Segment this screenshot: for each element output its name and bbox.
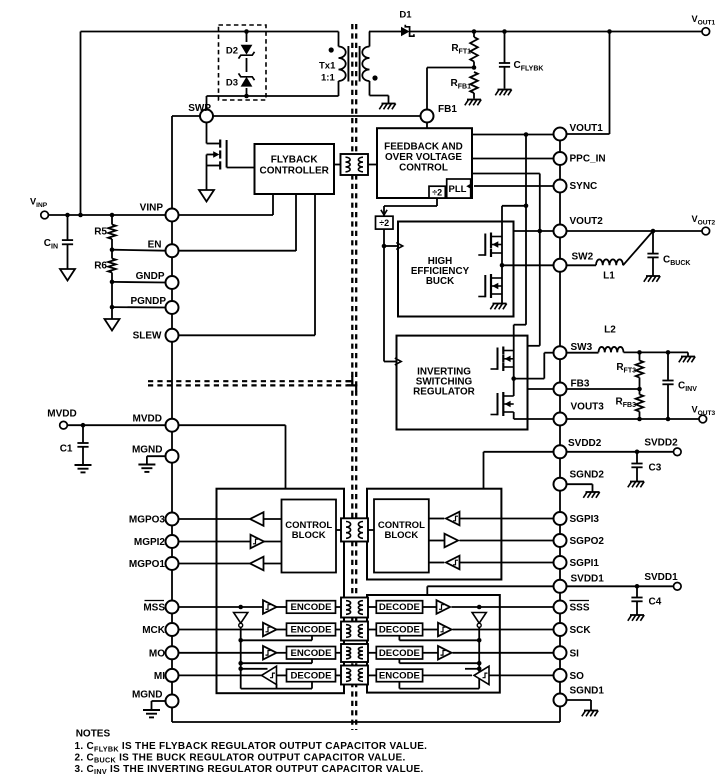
svg-text:ENCODE: ENCODE	[379, 671, 421, 682]
isolator flyback channel	[341, 154, 369, 175]
wire feedback to VOUT1 pin	[472, 132, 554, 137]
diode D1	[369, 10, 414, 37]
wire VOUT2 from buck	[514, 229, 554, 234]
pin SLEW	[133, 329, 179, 342]
wire buck FET feed	[502, 206, 526, 237]
feedback and over voltage control box	[377, 128, 472, 198]
resistor R5	[94, 215, 116, 250]
svg-text:EN: EN	[148, 240, 162, 251]
transistor buck low-side FET	[478, 274, 502, 298]
wire SVDD1 to SPI box	[427, 586, 553, 595]
buffer MGPI2	[251, 535, 265, 549]
svg-text:SGPO2: SGPO2	[570, 536, 605, 547]
buffer SSS	[437, 600, 451, 614]
resistor RFT1	[451, 32, 477, 68]
svg-text:SWP: SWP	[188, 103, 211, 114]
resistor R6	[94, 250, 116, 282]
svg-text:NOTES: NOTES	[76, 728, 111, 739]
wire buck half-bridge	[501, 237, 503, 304]
pin MSS	[143, 601, 178, 614]
wire FB1 feedback tap	[427, 68, 474, 110]
capacitor CFLYBK	[499, 32, 544, 89]
wire SLEW row	[179, 334, 316, 336]
ground C1	[75, 465, 92, 472]
buffer SO	[474, 666, 489, 684]
wire SGND1 ground	[567, 700, 592, 710]
pin SW3	[554, 342, 593, 359]
wire VOUT3 to terminal	[567, 417, 700, 422]
pin MVDD	[133, 414, 179, 432]
wire MVDD rail	[68, 423, 166, 428]
inductor L1	[567, 259, 624, 281]
ground secondary	[379, 104, 395, 110]
svg-text:DECODE: DECODE	[379, 625, 421, 636]
wire SW3 jog	[514, 353, 554, 379]
svg-text:MGPO3: MGPO3	[129, 515, 166, 526]
svg-text:D2: D2	[226, 46, 238, 57]
wire top rail primary	[81, 32, 339, 216]
svg-text:SLEW: SLEW	[133, 331, 162, 342]
svg-text:SCK: SCK	[570, 625, 592, 636]
svg-text:MCK: MCK	[142, 625, 166, 636]
decode box SI	[376, 647, 422, 660]
wire PGNDP row	[110, 282, 166, 319]
node snubber bottom	[244, 94, 249, 99]
svg-text:BUCK: BUCK	[426, 276, 454, 287]
wire SVDD2 to terminal	[567, 450, 674, 455]
svg-text:DECODE: DECODE	[379, 602, 421, 613]
buffer SCK	[438, 623, 452, 637]
pin VOUT2	[554, 216, 604, 238]
svg-text:VINP: VINP	[140, 203, 164, 214]
svg-text:SW2: SW2	[572, 252, 594, 263]
decode box SCK	[376, 623, 422, 636]
buffer SGPO2	[445, 534, 459, 548]
pin MGND upper	[132, 445, 179, 463]
svg-text:PGNDP: PGNDP	[130, 296, 166, 307]
ground RFB1	[465, 100, 481, 106]
ground CIN	[60, 269, 75, 281]
svg-text:CONTROL: CONTROL	[399, 163, 448, 174]
buffer MO	[263, 646, 277, 660]
isolator MI channel	[336, 666, 377, 685]
svg-text:DECODE: DECODE	[290, 671, 332, 682]
terminal VINP	[30, 197, 48, 219]
slave GPIO box	[367, 489, 501, 580]
resistor RFB3	[616, 389, 644, 419]
node RFT1/RFB1	[472, 65, 477, 70]
buffer SGPI1	[446, 556, 460, 570]
wire MI row	[179, 674, 287, 676]
slave SPI box	[367, 595, 500, 693]
pin SGPI3	[554, 512, 600, 525]
divider box /2 first	[429, 186, 445, 198]
pin MI	[154, 669, 179, 682]
transformer Tx1	[319, 32, 389, 104]
ground PGNDP	[105, 319, 120, 331]
wire VOUT1 to top rail	[567, 32, 610, 135]
encode box MO	[287, 647, 336, 660]
control block slave	[374, 499, 429, 572]
node R6 bottom	[110, 280, 115, 285]
capacitor CINV	[662, 352, 697, 419]
pin SCK	[554, 623, 592, 636]
wire chip bottom edge	[172, 721, 560, 723]
svg-text:MVDD: MVDD	[133, 414, 162, 425]
pin MGPO3	[129, 513, 179, 526]
inverting switching regulator box	[397, 336, 528, 430]
wire flyback isolator to feedback box	[368, 164, 377, 166]
master digital box	[217, 489, 345, 694]
svg-text:L1: L1	[603, 271, 615, 282]
terminal VOUT3	[692, 405, 716, 423]
capacitor CBUCK	[647, 231, 690, 276]
pin SW2	[554, 252, 594, 272]
terminal MVDD	[47, 409, 76, 430]
wire MSS gate bus	[238, 627, 312, 688]
wire /2 to inverting enable	[384, 246, 401, 365]
high efficiency buck box	[398, 222, 514, 317]
wire SW2	[502, 264, 554, 266]
svg-text:÷2: ÷2	[379, 218, 389, 228]
terminal VOUT2	[692, 214, 716, 235]
encode box SO	[376, 669, 422, 682]
pin VINP	[140, 203, 179, 222]
pin MO	[149, 646, 179, 659]
wire controller to EN	[295, 194, 297, 251]
ground buck	[490, 304, 506, 310]
decode box SSS	[376, 601, 422, 614]
pin MCK	[142, 623, 178, 636]
svg-text:REGULATOR: REGULATOR	[413, 387, 475, 398]
svg-text:ENCODE: ENCODE	[290, 625, 332, 636]
svg-text:SW3: SW3	[571, 342, 593, 353]
pin SYNC	[554, 180, 598, 193]
wire VOUT2 to terminal	[567, 229, 703, 234]
wire feedback to PPC_IN	[472, 158, 554, 160]
svg-text:MI: MI	[154, 671, 165, 682]
svg-text:PPC_IN: PPC_IN	[570, 154, 606, 165]
wire controller to SLEW	[314, 194, 316, 335]
svg-text:VOUT3: VOUT3	[571, 402, 605, 413]
wire controller to VINP	[179, 194, 274, 215]
svg-text:D1: D1	[399, 10, 412, 21]
buffer MGPO1	[250, 557, 264, 571]
svg-text:1:1: 1:1	[321, 73, 335, 84]
decode box MI	[287, 669, 336, 682]
wire SSS row	[423, 605, 554, 610]
isolator MSS channel	[336, 598, 377, 618]
svg-text:DECODE: DECODE	[379, 648, 421, 659]
terminal VOUT1	[692, 14, 716, 35]
pin EN	[148, 240, 179, 258]
svg-text:SVDD1: SVDD1	[571, 574, 605, 585]
notes	[75, 728, 428, 776]
ground flyback FET	[199, 190, 214, 202]
snubber dashed box	[219, 25, 267, 100]
wire MGPO3 row	[179, 518, 282, 520]
pin FB3	[554, 379, 590, 396]
pin MGND lower	[132, 690, 179, 708]
svg-text:MGND: MGND	[132, 445, 163, 456]
svg-text:VOUT2: VOUT2	[570, 216, 604, 227]
node snubber top	[244, 29, 249, 34]
ground L2	[679, 357, 695, 363]
barrier elbow joints	[346, 376, 356, 392]
isolation barrier horizontal	[148, 381, 353, 385]
svg-text:CONTROLLER: CONTROLLER	[259, 166, 329, 177]
ground SGND1	[582, 711, 598, 717]
svg-text:MVDD: MVDD	[47, 409, 76, 420]
wire MO row	[179, 652, 287, 654]
svg-text:MSS: MSS	[143, 603, 165, 614]
node R5/R6	[110, 247, 115, 252]
wire inverting half-bridge	[513, 351, 515, 397]
pin SVDD2	[554, 438, 602, 458]
svg-text:FLYBACK: FLYBACK	[271, 155, 319, 166]
wire MGND lower ground	[152, 701, 166, 710]
svg-text:Tx1: Tx1	[319, 61, 336, 72]
svg-text:L2: L2	[604, 325, 616, 336]
svg-text:SSS: SSS	[570, 603, 590, 614]
wire SGPI1 row	[429, 562, 554, 564]
svg-text:OVER VOLTAGE: OVER VOLTAGE	[385, 152, 462, 163]
diode D2	[226, 42, 255, 59]
wire MGND upper ground	[147, 456, 166, 464]
flyback controller box	[255, 144, 335, 194]
wire MCK row	[179, 629, 287, 631]
svg-text:ENCODE: ENCODE	[290, 648, 332, 659]
wire chip right edge	[559, 134, 561, 722]
svg-text:C1: C1	[60, 444, 73, 455]
isolator MCK channel	[336, 622, 377, 641]
wire SCK row	[423, 629, 554, 631]
svg-text:FB1: FB1	[438, 104, 457, 115]
isolator MO channel	[336, 644, 377, 662]
pin SSS	[554, 601, 590, 614]
svg-text:SVDD1: SVDD1	[644, 572, 678, 583]
wire SSS gate bus	[399, 627, 481, 688]
svg-text:PLL: PLL	[449, 184, 467, 195]
buffer MSS	[263, 600, 277, 614]
capacitor C3	[631, 452, 661, 481]
wire FB3 to divider	[567, 387, 642, 392]
pin SO	[554, 669, 585, 682]
resistor RFB1	[451, 72, 478, 99]
wire transformer primary bottom to SWP	[207, 96, 339, 110]
ground CFLYBK	[495, 90, 511, 96]
ground C3	[628, 482, 644, 488]
svg-text:SYNC: SYNC	[570, 181, 598, 192]
buffer SI	[438, 646, 452, 660]
pin SI	[554, 646, 580, 659]
svg-text:SVDD2: SVDD2	[644, 438, 678, 449]
svg-text:MO: MO	[149, 648, 165, 659]
terminal SVDD1	[644, 572, 681, 590]
svg-text:SI: SI	[570, 648, 580, 659]
transistor buck high-side FET	[478, 233, 502, 258]
pin SGND1	[554, 686, 605, 707]
wire FB3 into box	[528, 388, 554, 390]
svg-text:FEEDBACK AND: FEEDBACK AND	[384, 142, 463, 153]
svg-text:3. CINV IS THE INVERTING REGUL: 3. CINV IS THE INVERTING REGULATOR OUTPU…	[75, 764, 424, 776]
pin PPC_IN	[554, 152, 606, 165]
pin VOUT3	[554, 402, 605, 426]
svg-text:ENCODE: ENCODE	[290, 602, 332, 613]
pin FB1	[421, 104, 458, 123]
wire /2 to buck enable	[382, 229, 403, 249]
svg-text:MGPI2: MGPI2	[134, 537, 166, 548]
capacitor CIN	[44, 215, 73, 269]
wire /2 to /2 second	[381, 198, 437, 216]
wire SWP to FB1	[172, 115, 421, 117]
wire SGPI3 row	[429, 518, 554, 520]
diode D3	[226, 72, 255, 89]
isolator control block channel	[336, 518, 374, 541]
encode box MSS	[287, 601, 336, 614]
svg-text:D3: D3	[226, 78, 238, 89]
pin GNDP	[136, 271, 179, 289]
svg-text:SGND2: SGND2	[570, 470, 605, 481]
pin SWP	[188, 103, 213, 123]
wire top rail secondary to VOUT1 terminal	[410, 29, 703, 34]
ground C4	[628, 615, 644, 621]
wire MVDD to digital box	[179, 425, 286, 489]
wire SO row	[423, 674, 554, 676]
capacitor C1	[60, 425, 89, 464]
wire VINP rail	[49, 213, 166, 218]
transistor inverting low-side FET	[491, 392, 514, 416]
wire SVDD1 to terminal	[567, 584, 674, 589]
pin PGNDP	[130, 296, 178, 314]
buffer MI	[262, 666, 277, 684]
divider box /2 second	[376, 216, 394, 229]
control block master	[282, 500, 337, 573]
svg-text:MGND: MGND	[132, 690, 163, 701]
wire SVDD2 to GPIO box	[484, 452, 554, 489]
node SW2	[500, 263, 505, 268]
wire chip left edge	[171, 116, 173, 722]
ground CBUCK	[644, 276, 660, 282]
svg-text:MGPO1: MGPO1	[129, 559, 166, 570]
inductor L2	[567, 325, 624, 353]
svg-text:FB3: FB3	[571, 379, 590, 390]
wire VOUT1 sense to inverting FET	[514, 135, 526, 351]
wire L2 output	[624, 350, 689, 356]
inverter SSS gate	[472, 613, 486, 628]
svg-text:VOUT1: VOUT1	[570, 123, 604, 134]
svg-text:R6: R6	[94, 261, 107, 272]
wire SGPO2 row	[429, 540, 554, 542]
svg-text:C3: C3	[649, 463, 662, 474]
wire SI row	[423, 652, 554, 654]
svg-text:GNDP: GNDP	[136, 271, 165, 282]
pin MGPO1	[129, 557, 179, 570]
PLL box	[447, 179, 471, 198]
isolation barrier vertical	[352, 24, 356, 730]
pin VOUT1	[554, 123, 604, 141]
transistor flyback MOSFET	[207, 123, 255, 190]
svg-text:÷2: ÷2	[432, 188, 442, 198]
svg-text:R5: R5	[94, 227, 107, 238]
node wireB buck branch	[524, 204, 529, 209]
svg-text:SGND1: SGND1	[570, 686, 605, 697]
ground MGND lower	[143, 710, 160, 717]
ground SGND2	[583, 492, 599, 498]
buffer MCK	[263, 623, 277, 637]
pin SGND2	[554, 470, 605, 491]
wire SGND2 ground	[567, 484, 593, 491]
wire EN row	[112, 250, 296, 251]
pin MGPI2	[134, 535, 179, 548]
wire FB1 to feedback box	[426, 123, 428, 129]
transistor inverting high-side FET	[491, 347, 514, 372]
pin SGPI1	[554, 556, 600, 569]
svg-text:SVDD2: SVDD2	[568, 438, 602, 449]
wire MGPO1 row	[179, 563, 282, 565]
svg-text:SGPI1: SGPI1	[570, 558, 600, 569]
pin SGPO2	[554, 534, 605, 547]
terminal SVDD2	[644, 438, 681, 456]
wire VOUT3 from FET	[514, 412, 554, 419]
svg-text:BLOCK: BLOCK	[385, 530, 419, 541]
wire feedback to inverting regulator	[472, 174, 540, 346]
encode box MCK	[287, 623, 336, 636]
buffer SGPI3	[446, 512, 460, 526]
wire controller to flyback isolator	[334, 164, 341, 166]
wire snubber branch	[246, 32, 248, 97]
svg-text:SO: SO	[570, 671, 585, 682]
wire PLL to SYNC	[474, 185, 554, 187]
wire MGPI2 row	[179, 541, 282, 543]
resistor RFT3	[616, 352, 643, 389]
wire MSS row	[179, 605, 287, 610]
ground MGND upper	[138, 465, 155, 472]
node SW3	[511, 376, 516, 381]
pin SVDD1	[554, 574, 605, 593]
capacitor C4	[631, 586, 661, 614]
wire GNDP row	[112, 281, 166, 284]
buffer MGPO3	[250, 512, 264, 526]
svg-text:C4: C4	[649, 597, 662, 608]
wire L1 to CBUCK	[623, 231, 653, 265]
svg-text:BLOCK: BLOCK	[292, 530, 326, 541]
svg-text:SGPI3: SGPI3	[570, 514, 600, 525]
inverter MSS gate	[234, 613, 248, 628]
